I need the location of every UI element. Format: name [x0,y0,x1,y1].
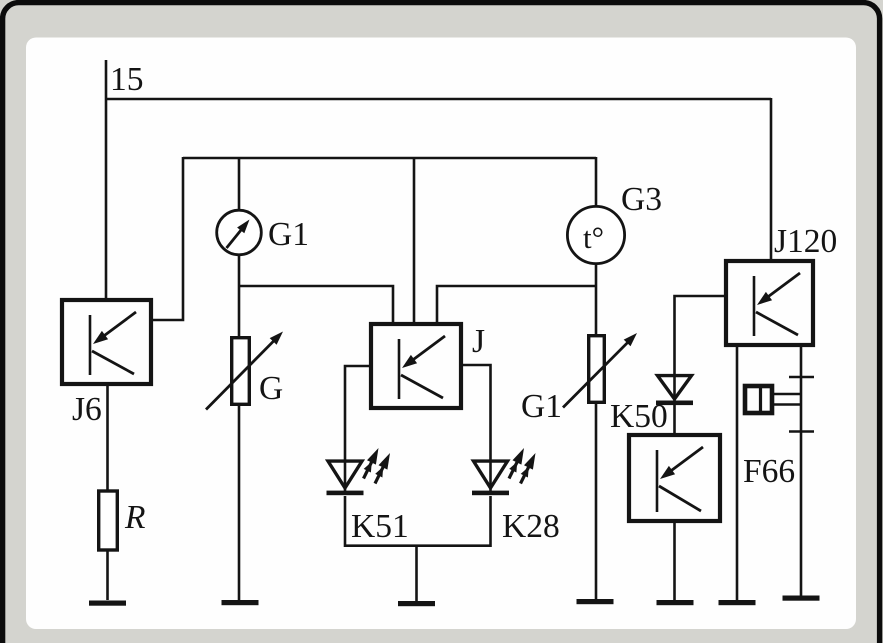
ground (K50) [657,600,694,605]
variable resistor G1 [563,333,637,408]
label K50 [610,398,668,435]
ground (G1) [577,599,614,604]
wire: bus drop to gauge G1 [238,157,241,212]
svg-text:R: R [124,499,145,536]
svg-text:F66: F66 [743,453,795,490]
label G1 (gauge) [268,216,309,253]
diode K50 [656,374,693,405]
resistor R [99,491,118,550]
LED K28 [472,448,536,495]
wire: bus center drop into J top [413,157,416,323]
spark plug F66 connector [745,385,801,414]
svg-text:K51: K51 [351,508,409,545]
wire: top horizontal from 15 to J120 [106,98,771,101]
wire: G to ground [238,406,241,600]
relay J [371,324,461,408]
label K51 [351,508,409,545]
wire: J left to LED K51 [345,366,370,461]
node 15 label [110,61,144,98]
spark gap tick upper [789,376,814,379]
wire: branch junction to J box top-left [239,286,393,323]
svg-text:K28: K28 [502,508,560,545]
label R [124,499,145,536]
svg-text:G1: G1 [268,216,309,253]
relay J6 [62,300,151,384]
wire: J right to LED K28 [462,365,491,461]
label G3 [621,181,662,218]
wire: drop to J120 top [770,98,773,261]
ground (J120) [719,600,756,605]
label F66 [743,453,795,490]
svg-text:G3: G3 [621,181,662,218]
wire: mid bus horizontal [183,157,596,160]
wire: K50 diode to relay box [673,405,676,434]
variable resistor G [206,332,283,410]
svg-text:G: G [259,370,283,407]
LED K51 [327,448,391,495]
label J [472,323,485,360]
label J120 [774,223,837,260]
wire: J120 bottom-right spark line [800,346,803,597]
wire: J120 bottom-left to ground [736,346,739,600]
svg-text:t°: t° [583,220,604,255]
wire: gauge G1 down to resistor G with branch to J [238,254,241,338]
wire: bus right drop to gauge G3 [595,157,598,208]
svg-text:J6: J6 [72,391,102,428]
ground (F66) [783,596,820,601]
wire: J6 to resistor R [106,386,109,491]
label K28 [502,508,560,545]
wire: G1 to ground [595,404,598,599]
svg-text:J120: J120 [774,223,837,260]
wire: G3 down to variable resistor G1 [595,263,598,336]
svg-text:J: J [472,323,485,360]
wire: bus left drop to J6 [152,157,183,320]
gauge G3 (t°) [567,206,624,263]
relay J120 [726,261,813,345]
ground (LED rail) [398,601,435,606]
svg-text:G1: G1 [521,388,562,425]
relay K50 [629,435,720,521]
wire: J120 left to diode K50 [675,296,726,375]
ground (G) [222,600,259,605]
svg-text:15: 15 [110,61,144,98]
wire: rail to ground [415,545,418,601]
spark gap tick lower [789,430,814,433]
label G1 (variable resistor) [521,388,562,425]
wire: K28 lead down [489,496,492,547]
gauge G1 [217,210,262,255]
label J6 [72,391,102,428]
wire: R to ground [106,550,109,600]
wire: terminal 15 vertical lead [105,60,108,302]
svg-text:K50: K50 [610,398,668,435]
wire: LED bottom rail [344,544,492,547]
label G [259,370,283,407]
ground (R) [89,601,126,606]
wire: K50 to ground [673,522,676,600]
wire: K51 lead down [344,496,347,547]
wire: G3 branch to J box top-right [437,286,596,323]
